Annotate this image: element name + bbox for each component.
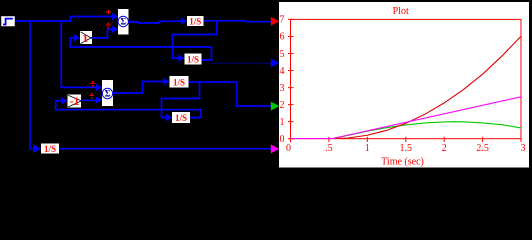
wire: integrator U7 output to plot input 4 (59, 148, 271, 150)
wire: integrator U2 output to plot input 1 (204, 20, 272, 23)
svg-text:.5: .5 (325, 143, 333, 154)
svg-text:3: 3 (280, 83, 285, 94)
wire: integrator U3 output to plot input 2 (dark) (212, 62, 272, 64)
wire: branch down to integrator U7 (bottom) (30, 21, 33, 149)
svg-text:4: 4 (280, 66, 285, 77)
svg-text:-1: -1 (70, 94, 80, 108)
plot window background (279, 2, 529, 168)
svg-text:Σ: Σ (105, 89, 111, 99)
svg-text:2: 2 (442, 143, 447, 154)
svg-text:1: 1 (365, 143, 370, 154)
output connector arrow (plot trace 3, green) (271, 102, 280, 111)
wire: integrator U5 output to plot input 3 (189, 82, 272, 106)
y axis labels 7..0 (280, 15, 285, 145)
wire: summer U1 output to integrator U2 (129, 21, 182, 23)
input arrow (integrator U6) (166, 114, 172, 122)
summing junction U4 (102, 80, 113, 106)
y axis ticks (288, 19, 294, 138)
wire: branch down to summer U4 input 1 (61, 21, 96, 87)
svg-text:1/S: 1/S (187, 55, 199, 65)
svg-text:0: 0 (286, 143, 291, 154)
x axis labels 0..3 (286, 143, 526, 154)
integrator U7 (1/S, bottom) (41, 144, 59, 154)
trace red: (t-0.55)^2 (291, 36, 521, 138)
svg-text:1.5: 1.5 (400, 143, 413, 154)
label + (summer U4 input 1) (91, 81, 96, 87)
input arrow (summer U1 pin 1) (112, 13, 118, 21)
input arrow (summer U4 pin 2) (96, 96, 102, 104)
svg-text:3: 3 (521, 143, 526, 154)
wire: branch from U2 output down and left to integrator U3 input (173, 21, 217, 58)
plot axes frame (291, 19, 522, 138)
svg-text:Plot: Plot (393, 6, 409, 17)
svg-text:2.5: 2.5 (476, 143, 489, 154)
x axis ticks (291, 137, 522, 142)
trace green: sin(t-0.55) (291, 122, 521, 139)
input arrow (summer U1 pin 2) (112, 26, 118, 34)
svg-text:5: 5 (280, 49, 285, 60)
wire: summer U4 output to integrator U5 (113, 82, 164, 94)
trace magenta: ramp t-0.55 (291, 97, 521, 139)
svg-text:Time (sec): Time (sec) (381, 156, 424, 167)
svg-text:1/S: 1/S (189, 17, 201, 27)
svg-text:2: 2 (280, 100, 285, 111)
svg-text:0: 0 (280, 134, 285, 145)
label + (summer U1 input 2) (106, 23, 111, 29)
wire: branch from U5 output down to integrator U6 input (162, 82, 200, 118)
output connector arrow (plot trace 4, magenta) (271, 144, 280, 153)
input arrow (gain G1) (74, 34, 80, 42)
svg-text:1: 1 (82, 31, 88, 45)
summing junction U1 (118, 9, 129, 35)
wire: step output to summer U1 input 1 (15, 17, 113, 22)
input arrow (integrator U3) (178, 54, 184, 62)
integrator U5 (1/S) (170, 76, 189, 88)
input arrow (integrator U2) (181, 17, 187, 25)
svg-text:1/S: 1/S (173, 78, 185, 88)
integrator U2 (1/S) (187, 16, 204, 27)
input arrow (integrator U7) (33, 144, 41, 153)
output connector arrow (plot trace 1, red) (271, 17, 280, 26)
gain G2 value -1 (68, 94, 82, 108)
gain G1 value 1 (80, 31, 92, 45)
integrator U3 (1/S) (185, 54, 202, 65)
output connector arrow (plot trace 2, blue) (271, 59, 280, 68)
label + (summer U1 input 1) (106, 10, 112, 14)
svg-text:1/S: 1/S (175, 113, 187, 123)
input arrow (summer U4 pin 1) (96, 84, 102, 92)
wire: integrator U6 output feedback to gain G2 input (56, 101, 201, 118)
label + (summer U4 input 2) (90, 93, 95, 99)
svg-text:Σ: Σ (120, 17, 126, 27)
wire: gain G2 output to summer U4 input 2 (82, 99, 97, 101)
input arrow (integrator U5) (163, 78, 169, 86)
wire: gain G1 output to summer U1 input 2 (91, 29, 113, 38)
step source block (1, 16, 15, 27)
integrator U6 (1/S) (172, 112, 190, 123)
input arrow (gain G2) (61, 97, 67, 105)
svg-text:6: 6 (280, 32, 285, 43)
wire: integrator U3 output feedback to gain G1 input (70, 38, 211, 60)
svg-text:1/S: 1/S (44, 144, 56, 154)
svg-text:1: 1 (280, 117, 285, 128)
svg-text:7: 7 (280, 15, 285, 26)
